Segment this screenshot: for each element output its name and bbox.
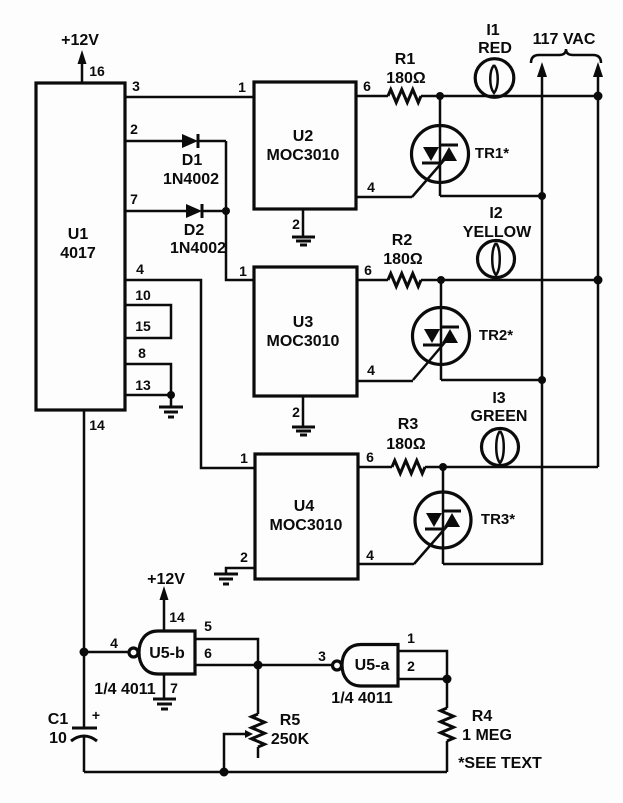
svg-text:D2: D2	[184, 222, 205, 239]
wire U5-a pin1 loop	[398, 651, 447, 679]
wire C1 to bottom rail	[83, 736, 86, 772]
svg-text:U5-a: U5-a	[355, 657, 390, 674]
lamp I1	[475, 59, 514, 98]
wire R4 to bottom rail	[446, 741, 449, 772]
ground (U2 pin 2)	[292, 236, 315, 239]
svg-text:6: 6	[363, 78, 371, 94]
junction lamp row / right VAC line	[594, 92, 603, 101]
svg-text:5: 5	[204, 618, 212, 634]
svg-text:TR2*: TR2*	[479, 327, 513, 344]
junction TR1 / left VAC line	[538, 192, 546, 200]
wire U1 pin3 to U2 pin1	[125, 96, 254, 99]
svg-text:GREEN: GREEN	[471, 408, 528, 425]
svg-text:YELLOW: YELLOW	[463, 224, 532, 241]
resistor R4	[441, 708, 454, 741]
brace	[531, 49, 601, 63]
svg-text:180Ω: 180Ω	[386, 70, 426, 87]
wire U2 pin6 to R1	[356, 95, 388, 98]
ground (U3 pin 2)	[292, 426, 315, 429]
svg-text:R3: R3	[398, 416, 419, 433]
svg-text:1/4 4011: 1/4 4011	[94, 681, 156, 698]
wire diode node down to U3 pin1	[226, 141, 254, 280]
svg-text:180Ω: 180Ω	[383, 251, 423, 268]
junction R2/TR2	[437, 276, 445, 284]
U4 pin 2 stub	[226, 568, 255, 573]
svg-text:MOC3010: MOC3010	[267, 333, 340, 350]
svg-text:4: 4	[136, 261, 144, 277]
svg-text:+: +	[92, 707, 100, 723]
diode D1	[182, 134, 198, 148]
svg-text:TR3*: TR3*	[481, 511, 515, 528]
wire U5-b pin6 to U5-a input	[195, 664, 334, 667]
ground (U5-b pin 7)	[153, 698, 176, 701]
svg-text:1: 1	[239, 263, 247, 279]
wire U4 pin6 to R3	[358, 466, 392, 469]
triac TR3	[442, 467, 445, 564]
svg-text:R5: R5	[280, 712, 301, 729]
svg-text:I2: I2	[489, 205, 502, 222]
svg-text:TR1*: TR1*	[475, 145, 509, 162]
svg-text:+12V: +12V	[147, 571, 185, 588]
svg-text:R2: R2	[392, 232, 413, 249]
svg-text:180Ω: 180Ω	[386, 436, 426, 453]
svg-text:1/4 4011: 1/4 4011	[331, 690, 393, 707]
svg-text:7: 7	[170, 680, 178, 696]
svg-text:+12V: +12V	[61, 32, 99, 49]
svg-text:10: 10	[49, 730, 67, 747]
svg-text:14: 14	[89, 417, 105, 433]
left VAC line (hot)	[541, 74, 544, 565]
R5 wiper arm	[224, 734, 246, 772]
wire R3 to lamp row	[425, 466, 598, 469]
svg-text:R4: R4	[472, 708, 493, 725]
svg-text:250K: 250K	[271, 731, 310, 748]
svg-text:4: 4	[367, 179, 375, 195]
svg-text:2: 2	[292, 216, 300, 232]
svg-text:I1: I1	[486, 22, 499, 39]
svg-text:U2: U2	[293, 128, 314, 145]
svg-text:13: 13	[135, 377, 151, 393]
svg-text:U4: U4	[294, 498, 315, 515]
wire U5-b pin5 loop	[195, 639, 258, 665]
wire TR2 to left VAC line	[441, 379, 542, 382]
svg-text:8: 8	[138, 345, 146, 361]
junction pin8/pin13	[167, 391, 175, 399]
svg-text:6: 6	[364, 262, 372, 278]
U3 pin 2 stub	[302, 396, 305, 426]
potentiometer R5	[257, 665, 260, 714]
svg-text:U3: U3	[293, 314, 314, 331]
+12V arrow to U5-b pin 14	[163, 597, 166, 631]
wire pin8 to ground node	[125, 364, 171, 395]
NAND gate U5-a	[342, 645, 398, 687]
junction pin5/pin6	[254, 661, 263, 670]
wire U3 pin6 to R2	[357, 279, 388, 282]
wire to R4	[446, 679, 449, 708]
IC U1 4017	[36, 83, 125, 410]
junction R3/TR3	[439, 463, 447, 471]
svg-text:4: 4	[367, 362, 375, 378]
wire U5-a pin2 to R4	[398, 678, 447, 681]
wire D1 cathode to node	[198, 140, 226, 143]
triac TR1	[439, 96, 442, 196]
optocoupler U2 MOC3010	[254, 82, 356, 209]
svg-text:MOC3010: MOC3010	[267, 147, 340, 164]
svg-text:U1: U1	[68, 226, 89, 243]
resistor R2	[388, 274, 421, 287]
diode D2	[186, 204, 202, 218]
junction pin1/pin2/R4	[443, 675, 452, 684]
junction diode node	[222, 207, 230, 215]
NAND gate U5-b	[139, 631, 195, 674]
svg-text:2: 2	[130, 121, 138, 137]
junction lamp row2 / right VAC line	[594, 276, 603, 285]
+12V arrow to U1 pin 16	[81, 60, 84, 83]
junction TR2 / left VAC line	[538, 376, 546, 384]
svg-text:16: 16	[89, 63, 105, 79]
svg-text:7: 7	[130, 191, 138, 207]
svg-text:14: 14	[169, 609, 185, 625]
wire U1 pin2 to D1	[125, 140, 182, 143]
junction pin14 line / U5-b output	[80, 648, 89, 657]
svg-text:4: 4	[110, 635, 118, 651]
svg-text:1: 1	[240, 450, 248, 466]
optocoupler U4 MOC3010	[255, 454, 358, 579]
svg-text:R1: R1	[395, 51, 416, 68]
svg-text:10: 10	[135, 287, 151, 303]
lamp I2	[478, 241, 515, 278]
wire node to U5-b output	[84, 651, 129, 654]
svg-text:117 VAC: 117 VAC	[533, 31, 596, 48]
wire pin10-pin15 loop	[125, 305, 171, 338]
svg-text:1 MEG: 1 MEG	[462, 727, 512, 744]
svg-text:1: 1	[238, 79, 246, 95]
svg-text:4: 4	[366, 547, 374, 563]
junction R5 wiper / bottom rail	[220, 768, 229, 777]
ground (U1 pins 8/13)	[170, 395, 173, 406]
wire R1 to lamp row	[421, 95, 598, 98]
wire pin13 to ground node	[125, 394, 171, 397]
wire D2 cathode to node	[202, 210, 226, 213]
U5-b pin 7 stub	[163, 674, 166, 698]
svg-text:3: 3	[132, 78, 140, 94]
svg-text:MOC3010: MOC3010	[270, 517, 343, 534]
wire U1 pin14 down to U5-b output node	[83, 410, 86, 727]
ground (U4 pin 2)	[214, 573, 238, 576]
resistor R1	[388, 90, 421, 103]
svg-text:3: 3	[318, 648, 326, 664]
wire R2 to lamp row	[421, 279, 598, 282]
wire U2 pin4 to TR1 gate	[356, 196, 412, 199]
svg-text:I3: I3	[492, 390, 505, 407]
svg-text:6: 6	[204, 645, 212, 661]
svg-text:1: 1	[407, 630, 415, 646]
bottom rail wire	[84, 771, 447, 774]
svg-text:15: 15	[135, 318, 151, 334]
svg-text:*SEE TEXT: *SEE TEXT	[458, 755, 542, 772]
svg-text:D1: D1	[182, 152, 203, 169]
optocoupler U3 MOC3010	[254, 267, 357, 396]
svg-text:2: 2	[292, 404, 300, 420]
right VAC line (neutral)	[597, 74, 600, 467]
resistor R3	[392, 461, 425, 474]
svg-text:1N4002: 1N4002	[163, 171, 219, 188]
wire U4 pin4 to TR3 gate	[358, 563, 414, 566]
triac TR2	[440, 280, 443, 380]
wire U1 pin4 to U4 pin1	[125, 280, 255, 468]
wire U3 pin4 to TR2 gate	[357, 380, 413, 383]
lamp I3	[482, 429, 519, 466]
wire TR1 to left VAC line	[440, 195, 542, 198]
svg-text:RED: RED	[478, 40, 512, 57]
junction R1/TR1	[436, 92, 444, 100]
svg-text:4017: 4017	[60, 245, 96, 262]
svg-text:C1: C1	[48, 711, 69, 728]
wire TR3 to left VAC line	[443, 563, 542, 566]
wire U1 pin7 to D2	[125, 210, 186, 213]
svg-text:1N4002: 1N4002	[170, 240, 226, 257]
U2 pin 2 stub	[302, 209, 305, 236]
svg-text:6: 6	[366, 449, 374, 465]
svg-text:2: 2	[240, 549, 248, 565]
svg-text:U5-b: U5-b	[149, 645, 185, 662]
svg-text:2: 2	[407, 658, 415, 674]
